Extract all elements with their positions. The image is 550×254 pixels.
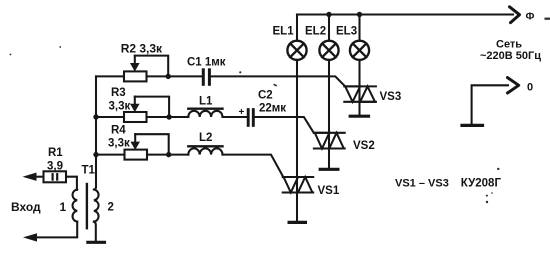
R4 wiper arrow <box>130 134 140 150</box>
svg-text:VS2: VS2 <box>353 140 375 152</box>
wire: L2 to VS1 gate <box>223 155 284 177</box>
svg-text:3,9: 3,9 <box>47 160 63 172</box>
svg-text:1: 1 <box>60 200 67 214</box>
resistor R2 (trimmer body) <box>124 71 147 81</box>
svg-text:+: + <box>239 107 245 118</box>
node: junction EL3 on top bus <box>357 12 362 17</box>
svg-text:VS3: VS3 <box>380 91 402 103</box>
inductor L1 <box>188 109 222 117</box>
triac VS1 <box>283 177 314 193</box>
wire: EL1 top lead <box>296 15 298 41</box>
scan specks <box>10 18 550 204</box>
wire: row3 bus to R4 <box>96 154 125 156</box>
svg-text:EL2: EL2 <box>305 26 326 38</box>
svg-text:R2 3,3к: R2 3,3к <box>121 42 163 56</box>
wire: VS3 cathode lead <box>358 102 360 115</box>
wire: T1 primary bottom lead to input arrow <box>35 222 77 238</box>
wire: R2 wiper loop <box>135 56 168 77</box>
triac VS3 <box>344 86 376 101</box>
node: junction EL2 on top bus <box>326 12 331 17</box>
svg-text:~220В 50Гц: ~220В 50Гц <box>480 50 541 62</box>
svg-text:EL1: EL1 <box>273 26 295 38</box>
wire: top phase bus <box>297 13 513 15</box>
terminal bar under 0 wire <box>462 124 483 127</box>
node: R4 loop junction <box>166 152 171 157</box>
node: bus junction row3 <box>93 152 98 157</box>
svg-text:С2: С2 <box>258 90 273 102</box>
node: bus junction row2 <box>93 114 98 119</box>
arrowhead input bottom (filled) <box>23 233 37 241</box>
R2 wiper arrow <box>130 56 140 72</box>
wire: R4 wiper loop <box>135 134 169 154</box>
wire: EL3 top lead <box>358 15 360 41</box>
wire: L1 to C2 <box>223 116 247 118</box>
wire: EL2 top lead <box>328 15 330 41</box>
transformer T1 <box>73 184 99 228</box>
resistor R4 (trimmer body) <box>125 150 148 160</box>
wire: C2 to VS2 gate <box>255 117 313 133</box>
svg-text:Вход: Вход <box>11 200 41 214</box>
wire: left bus vertical <box>95 76 97 186</box>
wire: R3 wiper loop <box>135 97 169 117</box>
svg-text:КУ208Г: КУ208Г <box>461 177 502 189</box>
wire: R2 to C1 <box>147 75 202 77</box>
wire: row1 bus to R2 <box>96 75 124 77</box>
lamp EL2 <box>319 41 338 60</box>
wire: EL2 to VS2 anode <box>328 60 330 133</box>
wire: VS1 cathode lead <box>296 193 298 222</box>
wire: EL1 to VS1 anode <box>296 60 298 177</box>
capacitor C1 <box>203 70 209 85</box>
svg-text:VS1: VS1 <box>318 185 340 197</box>
lamp EL1 <box>287 41 306 60</box>
svg-text:VS1 – VS3: VS1 – VS3 <box>395 177 449 189</box>
svg-text:R3: R3 <box>111 87 126 99</box>
svg-text:3,3к: 3,3к <box>108 138 130 150</box>
lamp EL3 <box>350 41 369 60</box>
R3 wiper arrow <box>130 97 140 113</box>
wire: R1 to T1 primary <box>66 177 77 190</box>
svg-text:2: 2 <box>108 202 114 214</box>
svg-text:3,3к: 3,3к <box>109 100 131 112</box>
svg-text:R1: R1 <box>48 147 63 159</box>
terminal bar under VS3 <box>350 115 368 118</box>
svg-text:0: 0 <box>527 82 533 94</box>
wire: R1 left lead with input arrow <box>35 176 44 178</box>
wire: neutral 0 output <box>472 85 508 124</box>
node: R3 loop junction <box>166 114 171 119</box>
arrowhead 0 (open) <box>508 78 519 93</box>
wire: EL3 to VS3 anode <box>358 60 360 87</box>
arrowhead Ф (open) <box>510 7 520 23</box>
wire: C1 to VS3 gate <box>211 76 345 86</box>
svg-text:Ф: Ф <box>526 11 535 23</box>
node: R2 loop junction <box>166 74 171 79</box>
arrowhead input top (filled) <box>23 173 37 181</box>
svg-text:L1: L1 <box>199 96 213 108</box>
wire: VS2 cathode lead <box>328 149 330 169</box>
svg-text:L2: L2 <box>199 132 212 144</box>
wire: R3 to L1 <box>147 116 189 118</box>
svg-text:Сеть: Сеть <box>496 38 522 50</box>
svg-text:Т1: Т1 <box>82 165 96 177</box>
wire: R4 to L2 <box>147 154 188 156</box>
svg-text:R4: R4 <box>111 125 126 137</box>
svg-text:22мк: 22мк <box>259 102 286 114</box>
svg-text:С1 1мк: С1 1мк <box>187 57 226 69</box>
wire: T1 secondary bottom lead <box>94 222 96 242</box>
svg-text:EL3: EL3 <box>336 26 357 38</box>
terminal bar under VS1 <box>289 221 305 224</box>
resistor R1 <box>44 171 67 182</box>
triac VS2 <box>314 133 345 149</box>
inductor L2 <box>188 146 222 154</box>
wire: row2 bus to R3 <box>96 116 124 118</box>
wire: T1 secondary top lead to bus <box>94 187 96 190</box>
resistor R3 (trimmer body) <box>124 112 147 122</box>
terminal bar under VS2 <box>320 168 338 171</box>
terminal bar under T1 secondary <box>88 241 105 244</box>
capacitor C2 <box>248 110 253 126</box>
